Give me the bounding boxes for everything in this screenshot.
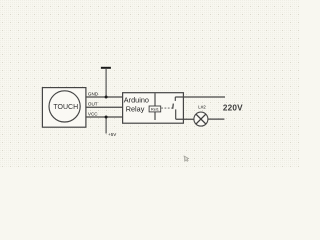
svg-text:GND: GND bbox=[88, 92, 99, 97]
switch blade bbox=[172, 104, 175, 109]
wire rail to GND bbox=[105, 69, 107, 97]
switch bottom contact bbox=[175, 109, 177, 119]
wire switch to 220V top bbox=[175, 96, 225, 98]
lamp L#2 bbox=[194, 112, 208, 126]
wire GND bbox=[86, 96, 123, 98]
mechanical link dashed bbox=[161, 107, 172, 109]
grid background bbox=[0, 0, 300, 168]
mouse cursor bbox=[184, 156, 189, 162]
relay module box bbox=[123, 93, 184, 124]
svg-text:VCC: VCC bbox=[88, 111, 98, 116]
relay coil Rel1 box bbox=[149, 106, 161, 112]
wire OUT bbox=[86, 106, 123, 108]
wire switch to lamp bbox=[176, 118, 194, 120]
wire lamp to 220V bottom bbox=[208, 118, 224, 120]
supply rail bar bbox=[101, 67, 111, 69]
svg-text:220V: 220V bbox=[223, 103, 243, 112]
junction dot on GND bbox=[105, 96, 108, 99]
svg-text:Arduino: Arduino bbox=[124, 96, 149, 105]
touch pad circle bbox=[49, 91, 80, 122]
svg-text:L#2: L#2 bbox=[198, 105, 206, 110]
svg-text:TOUCH: TOUCH bbox=[53, 104, 78, 111]
wire VCC bbox=[86, 116, 123, 118]
junction dot on VCC bbox=[105, 116, 108, 119]
svg-text:+5V: +5V bbox=[108, 132, 116, 137]
svg-text:OUT: OUT bbox=[88, 102, 98, 107]
svg-text:Rel1: Rel1 bbox=[151, 107, 159, 112]
switch top contact bbox=[174, 97, 176, 101]
relay coil wire bbox=[154, 93, 156, 120]
wire VCC to +5V bbox=[105, 117, 107, 134]
touch sensor module U1 body bbox=[42, 88, 86, 128]
svg-text:Relay: Relay bbox=[126, 105, 145, 114]
